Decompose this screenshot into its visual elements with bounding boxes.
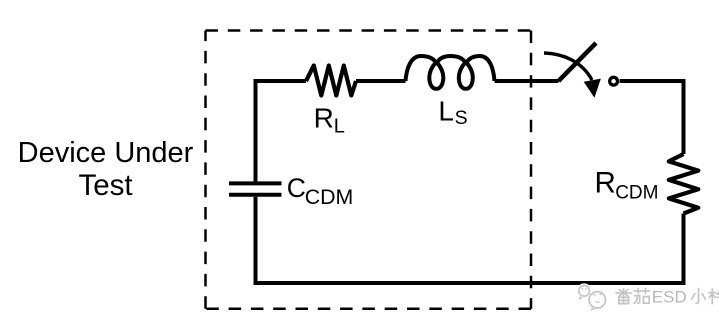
svg-text:S: S <box>455 107 468 129</box>
svg-text:Device Under: Device Under <box>18 137 194 169</box>
svg-text:CDM: CDM <box>305 185 354 209</box>
svg-text:R: R <box>595 167 616 200</box>
svg-text:Test: Test <box>78 169 132 202</box>
svg-text:R: R <box>314 102 334 133</box>
svg-text:ESD: ESD <box>652 287 687 306</box>
svg-text:C: C <box>287 173 306 203</box>
svg-text:L: L <box>438 96 454 127</box>
svg-text:CDM: CDM <box>615 183 658 204</box>
svg-text:L: L <box>334 116 345 138</box>
